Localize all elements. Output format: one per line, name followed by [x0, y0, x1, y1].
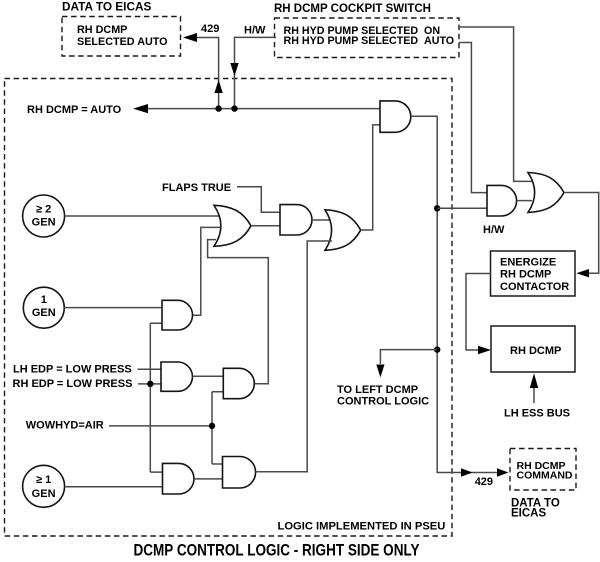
svg-text:TO LEFT DCMP: TO LEFT DCMP — [337, 384, 418, 396]
wire RH EDP to AND B — [138, 383, 161, 385]
or-gate OR1 (3-input) — [214, 205, 251, 246]
svg-text:≥ 1: ≥ 1 — [36, 474, 51, 486]
svg-text:LOGIC IMPLEMENTED IN PSEU: LOGIC IMPLEMENTED IN PSEU — [278, 521, 446, 533]
input circle 1 GEN — [23, 287, 64, 328]
wire branch to AND F — [437, 207, 487, 209]
wire AND4 out down to 429 output — [411, 116, 497, 472]
svg-text:429: 429 — [475, 476, 493, 488]
svg-text:RH DCMP: RH DCMP — [77, 24, 127, 36]
svg-text:RH DCMP: RH DCMP — [510, 345, 561, 357]
dashed box RH DCMP SELECTED AUTO — [62, 17, 181, 57]
and-gate AND C — [223, 368, 254, 398]
or-gate OR3 — [325, 210, 361, 251]
dashed box PSEU (logic implemented in PSEU) — [5, 79, 453, 537]
box RH DCMP — [491, 326, 575, 372]
wire FLAPS TRUE to AND2 — [237, 187, 280, 213]
svg-text:WOWHYD=AIR: WOWHYD=AIR — [26, 420, 104, 432]
svg-text:COMMAND: COMMAND — [517, 470, 573, 482]
svg-text:CONTACTOR: CONTACTOR — [500, 281, 569, 293]
wire 429 up to EICAS box — [196, 38, 219, 109]
node dot H/W/rail — [231, 105, 237, 111]
svg-text:DCMP CONTROL LOGIC - RIGHT SID: DCMP CONTROL LOGIC - RIGHT SIDE ONLY — [134, 542, 420, 560]
or-gate OR G — [528, 173, 564, 213]
wire rail RH DCMP = AUTO — [147, 108, 380, 110]
svg-text:RH DCMP = AUTO: RH DCMP = AUTO — [27, 104, 122, 116]
svg-text:GEN: GEN — [32, 217, 56, 229]
wire cockpit ON to OR G — [459, 27, 533, 181]
arrow into RH DCMP box — [478, 346, 491, 354]
node dot 429/rail — [215, 105, 221, 111]
svg-text:LH ESS BUS: LH ESS BUS — [504, 408, 570, 420]
arrow up mid-line 429 — [214, 80, 222, 93]
arrow down TO LEFT DCMP — [376, 365, 384, 378]
wire WOWHYD vertical to AND C and AND E — [212, 392, 223, 464]
input circle >=1 GEN — [23, 465, 65, 507]
and-gate AND4 (top) — [380, 101, 411, 132]
svg-text:RH DCMP COCKPIT SWITCH: RH DCMP COCKPIT SWITCH — [274, 3, 431, 15]
wire cockpit AUTO to AND F — [459, 43, 487, 193]
wire OR G out to ENERGIZE box — [564, 193, 599, 274]
svg-text:EICAS: EICAS — [511, 508, 546, 520]
wire GEN>=1 to AND D — [65, 486, 163, 488]
wire ENERGIZE box to RH DCMP box — [466, 274, 491, 351]
svg-text:FLAPS TRUE: FLAPS TRUE — [162, 182, 231, 194]
wire GEN1 to AND A — [64, 307, 162, 309]
svg-text:RH EDP = LOW PRESS: RH EDP = LOW PRESS — [13, 378, 133, 390]
and-gate AND D — [163, 463, 194, 494]
arrow into RH DCMP COMMAND box — [497, 468, 509, 476]
node dot AND-F branch — [434, 205, 440, 211]
and-gate AND E — [223, 457, 256, 489]
wire WOWHYD to junction — [109, 425, 212, 427]
wire H/W from cockpit box down to rail — [235, 37, 277, 108]
wire LH ESS BUS up arrow — [533, 387, 535, 403]
arrow 429 mid (bottom) — [461, 468, 473, 476]
arrow left on rail — [133, 104, 148, 113]
svg-text:CONTROL LOGIC: CONTROL LOGIC — [337, 396, 429, 408]
svg-text:ENERGIZE: ENERGIZE — [500, 257, 556, 269]
arrow into ENERGIZE box — [576, 269, 589, 277]
svg-text:H/W: H/W — [483, 224, 505, 236]
and-gate AND2 — [280, 205, 312, 235]
svg-text:DATA TO EICAS: DATA TO EICAS — [62, 0, 151, 14]
svg-text:SELECTED AUTO: SELECTED AUTO — [77, 36, 168, 48]
wire AND D out to AND E — [194, 478, 223, 480]
dashed box RH HYD PUMP SELECTED — [275, 18, 460, 58]
node dot RH EDP — [147, 381, 153, 387]
box ENERGIZE RH DCMP CONTACTOR — [491, 251, 576, 296]
wire branch to left DCMP logic — [380, 350, 437, 364]
wire AND A out to OR1 mid input — [193, 227, 221, 315]
wire AND E out up to OR3 bottom input — [256, 241, 333, 472]
and-gate AND F (H/W) — [487, 185, 517, 216]
and-gate AND A — [162, 300, 193, 330]
svg-text:429: 429 — [201, 23, 219, 35]
wire AND C out to OR1 bottom input — [208, 240, 269, 384]
svg-text:GEN: GEN — [32, 307, 56, 319]
svg-text:RH HYD PUMP SELECTED AUTO: RH HYD PUMP SELECTED AUTO — [284, 35, 455, 47]
arrow into EICAS box — [183, 33, 197, 42]
svg-text:≥ 2: ≥ 2 — [36, 204, 51, 216]
arrow up into RH DCMP box — [530, 373, 538, 388]
wire GEN2 to OR1 — [65, 215, 220, 217]
wire AND F out to OR G — [517, 200, 532, 202]
svg-text:RH DCMP: RH DCMP — [500, 269, 551, 281]
wire OR3 out up to AND4 — [361, 125, 380, 230]
arrow down mid-line H/W — [230, 63, 238, 76]
wire LH EDP to AND B — [138, 368, 163, 370]
svg-text:LH EDP = LOW PRESS: LH EDP = LOW PRESS — [13, 364, 132, 376]
svg-text:GEN: GEN — [32, 488, 56, 500]
wire AND B out to AND C — [193, 375, 224, 377]
wire AND2 out to OR3 — [312, 219, 332, 221]
node dot left-DCMP branch — [434, 346, 440, 352]
and-gate AND B — [161, 362, 192, 391]
wire RH EDP vertical to AND A and AND D — [150, 323, 162, 472]
svg-text:H/W: H/W — [244, 25, 266, 37]
wire OR1 out to AND2 — [251, 225, 280, 227]
input circle >=2 GEN — [23, 195, 65, 237]
dashed box RH DCMP COMMAND — [510, 449, 576, 491]
svg-text:1: 1 — [41, 294, 47, 306]
node dot WOWHYD — [209, 423, 215, 429]
